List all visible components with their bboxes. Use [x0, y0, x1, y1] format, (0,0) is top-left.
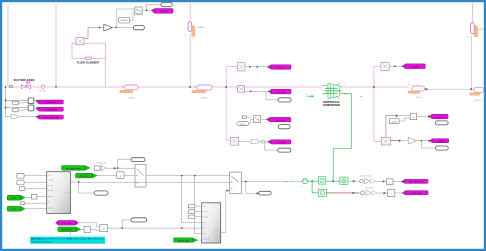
svg-text:ramping the compressor: ramping the compressor — [31, 240, 52, 243]
subsystem FLOW_ELEMENT — [72, 43, 106, 64]
terminator SB2 — [131, 218, 147, 222]
from tag FG green — [58, 227, 81, 232]
svg-text:ST_CMD: ST_CMD — [277, 142, 286, 144]
wire gain to goto R7 — [416, 140, 429, 142]
svg-text:ESTOP_NM: ESTOP_NM — [178, 240, 189, 242]
wire up to display — [147, 5, 161, 11]
wire M1 junction up to terminator — [118, 160, 131, 169]
wire switch out — [142, 9, 151, 11]
terminator SW2b — [259, 191, 271, 195]
svg-text:0 0 0 0: 0 0 0 0 — [240, 124, 246, 126]
display D-top — [161, 3, 172, 7]
wire xbox R1 to goto — [245, 66, 270, 68]
big block B1 — [47, 172, 71, 214]
svg-text:b: b — [307, 94, 308, 96]
terminator T1 — [133, 25, 144, 29]
compressor CENTRIFUGAL icon — [322, 83, 343, 100]
node circle VPC — [41, 85, 44, 88]
wire divide to goto — [417, 115, 430, 117]
delay TD2 — [192, 85, 212, 99]
wire branch down to terminator SW2b — [245, 181, 246, 182]
svg-text:SPD_REF: SPD_REF — [276, 120, 286, 122]
svg-text:1003: 1003 — [392, 122, 398, 124]
block xbox R2 on line — [238, 86, 245, 93]
wire into xbox R1 — [226, 66, 237, 68]
svg-text:A-MV001: A-MV001 — [198, 26, 205, 29]
wire FE up to gain — [84, 28, 104, 39]
svg-text:SPD_REF_RPM: SPD_REF_RPM — [66, 168, 81, 170]
goto R3 — [401, 64, 425, 69]
cluster constant row mid — [237, 116, 261, 126]
svg-text:sd_cmd: sd_cmd — [48, 190, 53, 192]
wire branch to terminator R7b — [421, 141, 435, 148]
wire TD3 out — [424, 88, 476, 90]
from tag FM magenta — [56, 221, 79, 226]
wire main flow line right — [344, 86, 409, 88]
wire B1 out junction — [70, 181, 78, 183]
row1 constant — [12, 101, 19, 104]
valve A-MV002 — [467, 23, 484, 38]
terminator SB — [131, 158, 145, 162]
block small after FA — [31, 194, 37, 199]
valve A-MV001 — [185, 22, 205, 36]
wire down to terminator SB1 — [79, 182, 94, 193]
wire sw1 out long — [146, 175, 230, 177]
block xbox R4 — [381, 137, 390, 145]
green circle C1 — [292, 178, 307, 187]
svg-text:C-MEM B: C-MEM B — [120, 20, 128, 22]
wire riser to terminator SB2 — [122, 220, 131, 228]
wire green rpm down path — [333, 93, 351, 180]
svg-text:PT_DIS: PT_DIS — [160, 11, 168, 13]
wire to goto R5 — [261, 118, 269, 120]
switch SW-T — [134, 7, 144, 17]
big block B2 — [202, 203, 221, 243]
wire column x374 — [373, 66, 375, 141]
svg-text:VPC-M1: VPC-M1 — [39, 91, 45, 93]
block FE transfer (x-box) — [76, 38, 84, 45]
block xbox R3 — [381, 63, 389, 71]
goto R2 — [268, 89, 292, 94]
terminator R7b — [436, 146, 449, 150]
annotation cyan note — [30, 232, 105, 244]
wire xbox R3 to goto — [389, 65, 404, 67]
gain K2 — [408, 137, 416, 144]
svg-text:rpm to pct: rpm to pct — [365, 186, 373, 189]
terminator R2b — [278, 98, 291, 102]
svg-text:n1: n1 — [301, 186, 303, 188]
wire S2 out to rowA — [348, 180, 360, 182]
sources left of B1 — [17, 173, 24, 178]
wire C1 to S1 — [308, 180, 319, 182]
delay TD1 — [120, 85, 138, 99]
switch SW1 — [135, 165, 146, 188]
wire G2 to const1 — [97, 175, 117, 177]
wire branch down to term — [266, 91, 278, 100]
node dot branch — [116, 27, 117, 28]
svg-text:PT_DIS2: PT_DIS2 — [411, 67, 420, 69]
not block — [84, 226, 90, 232]
terminator R4b — [435, 121, 448, 125]
port marker IN1 — [10, 85, 13, 87]
wire valve column top — [189, 3, 191, 22]
wire valve down to main — [470, 36, 472, 89]
wire B2 out up to SW2 in3 — [221, 191, 228, 233]
from tag G2 — [76, 173, 97, 178]
left rows: feed vertical — [5, 87, 7, 117]
row1 wire — [6, 99, 29, 101]
from tag FC — [174, 238, 198, 243]
svg-text:s_esd: s_esd — [48, 175, 52, 177]
svg-text:ESD_TRIP_CMD: ESD_TRIP_CMD — [43, 117, 59, 119]
wire branch down to terminator R6b — [265, 142, 278, 150]
row2 constant — [12, 108, 19, 111]
wire column x226 — [225, 67, 227, 141]
green block S1 — [318, 177, 325, 184]
terminator R6b — [278, 148, 291, 152]
svg-text:A-TD04: A-TD04 — [475, 99, 481, 102]
wire const1 to switch1 — [124, 175, 135, 177]
wire valve down to main — [189, 34, 191, 87]
svg-text:IN_OUT: IN_OUT — [64, 193, 69, 195]
svg-text:spd_ref: spd_ref — [48, 196, 53, 198]
row2 wire — [6, 107, 29, 109]
node dot — [99, 27, 100, 28]
svg-text:LOC: LOC — [12, 209, 17, 211]
row B shapes — [361, 186, 388, 195]
svg-text:SPD_LOC: SPD_LOC — [79, 176, 89, 178]
svg-text:SPD_PCT: SPD_PCT — [412, 193, 422, 195]
block QA — [387, 179, 394, 185]
svg-text:SPD_REF_PCT: SPD_REF_PCT — [409, 182, 424, 184]
sources left of B2 — [188, 204, 195, 208]
wire FE right edge down to main line — [105, 58, 107, 87]
block xbox R1 — [238, 63, 245, 71]
svg-text:SHT_STOP: SHT_STOP — [62, 230, 73, 232]
wire sw2 out to green cluster — [241, 180, 302, 182]
svg-text:A-MV2: A-MV2 — [478, 28, 483, 31]
goto R6 — [267, 140, 291, 144]
svg-text:PT_SUC: PT_SUC — [277, 67, 285, 69]
goto R7 — [430, 139, 433, 143]
terminator R5b — [278, 125, 290, 129]
delay TD3 — [408, 84, 424, 99]
goto L2 — [35, 107, 63, 112]
node junction x56 — [55, 86, 56, 87]
wire long y182 — [79, 181, 230, 183]
svg-text:A-TD03: A-TD03 — [416, 96, 422, 99]
svg-text:spd_loc: spd_loc — [48, 208, 53, 210]
valve SUCTION_ESDV — [14, 78, 35, 88]
mult cluster M1 — [95, 162, 117, 171]
row2 wire out — [34, 107, 38, 109]
svg-text:N_SET: N_SET — [215, 231, 220, 233]
wire gain out — [112, 27, 133, 29]
from tag FA — [7, 195, 25, 200]
block C-MEM B — [119, 17, 130, 23]
const small circle — [20, 202, 25, 205]
wire QA to goto — [393, 180, 403, 182]
wire vertical pink line left 2 — [55, 5, 57, 87]
wire green stub into C port — [307, 94, 315, 98]
constant 1003 — [389, 119, 399, 124]
wire S1 to S2 — [326, 180, 340, 182]
wire down to block2 port3 — [194, 175, 195, 176]
node dot — [146, 10, 147, 11]
goto GA — [401, 179, 428, 183]
wire right valve column — [472, 3, 474, 23]
wire xbox R6 to shapes — [239, 141, 252, 143]
wire S3 out dark red to rowB — [326, 192, 359, 194]
wire down to S3 — [312, 181, 318, 193]
goto GB — [402, 191, 429, 195]
row1 wire out — [34, 100, 38, 102]
wire C-MEM to switch in2 — [130, 12, 135, 21]
goto R1 — [267, 65, 291, 70]
svg-text:PT_SUCTION_PV: PT_SUCTION_PV — [43, 102, 60, 104]
goto R4 — [429, 114, 448, 119]
wire xbox R2 out — [245, 90, 271, 92]
svg-text:A-TD01: A-TD01 — [129, 96, 135, 99]
shape pentagon R6a — [251, 139, 260, 144]
node junction valve/main — [189, 86, 191, 88]
row2 mux — [28, 105, 34, 111]
wire AND out — [108, 227, 202, 229]
wire into xbox R6 — [226, 139, 230, 141]
switch SW2 — [230, 172, 242, 193]
block QB — [387, 190, 394, 197]
wire branch up to switch in1 — [116, 9, 135, 28]
wire const to divide — [399, 118, 410, 121]
shape tri R6b — [262, 140, 267, 143]
goto R5 — [266, 117, 291, 122]
green block S3 — [318, 189, 326, 196]
constant sq1 — [117, 172, 124, 179]
svg-text:a: a — [344, 84, 345, 86]
wire M1 to switch1 in1 — [118, 167, 135, 169]
svg-text:N_RPM: N_RPM — [437, 141, 444, 143]
svg-text:nrpm to pct scale: nrpm to pct scale — [359, 175, 372, 178]
wire QB to goto — [395, 192, 404, 194]
row3 or-gate — [11, 115, 20, 119]
wire xbox R4 up to divide — [386, 116, 397, 138]
svg-text:PT_DISCH_PV: PT_DISCH_PV — [44, 109, 58, 111]
goto PT tag top — [151, 9, 173, 14]
svg-text:A-TD02: A-TD02 — [202, 96, 208, 99]
from tag G1 — [62, 166, 90, 171]
from tag FB — [7, 206, 25, 211]
divide block — [410, 113, 417, 120]
terminator SB1 — [94, 191, 108, 195]
row A shapes — [359, 175, 387, 184]
svg-text:N_PCT: N_PCT — [437, 117, 444, 119]
gain K1 — [104, 24, 113, 31]
svg-text:SUCTION_ESDV: SUCTION_ESDV — [14, 78, 35, 82]
row3 wire — [6, 116, 11, 118]
wire main flow line left — [8, 86, 322, 88]
wire into xbox R3 — [374, 65, 381, 67]
svg-text:COMPRESSOR: COMPRESSOR — [323, 104, 341, 107]
wire FM to AND — [78, 223, 99, 227]
delay TD4 at border — [470, 87, 484, 102]
svg-text:MDL_RPDP assumes TRUE in case: MDL_RPDP assumes TRUE in case of NORMAL_… — [31, 238, 103, 241]
green block S2 — [340, 177, 348, 184]
block xbox R6 — [230, 137, 238, 145]
goto L1 — [35, 100, 63, 105]
wire into xbox R4 — [374, 140, 382, 142]
svg-text:FLOW_ELEMENT: FLOW_ELEMENT — [77, 61, 100, 65]
svg-text:ref/Nmax-rpm: ref/Nmax-rpm — [96, 162, 107, 165]
svg-text:A_SWITCH: A_SWITCH — [134, 14, 144, 17]
svg-text:FT_SUC: FT_SUC — [277, 92, 285, 94]
svg-text:CMP_RDY: CMP_RDY — [62, 223, 72, 225]
node dot sw1 — [181, 175, 182, 176]
and block — [100, 225, 108, 232]
goto L3 — [35, 115, 63, 119]
svg-text:a: a — [322, 84, 323, 86]
wire down to block2 port1 — [182, 176, 202, 223]
row1 mux — [28, 98, 34, 104]
wire vertical pink line left 1 — [7, 5, 9, 87]
wire xbox R4 right to gain — [390, 140, 400, 142]
